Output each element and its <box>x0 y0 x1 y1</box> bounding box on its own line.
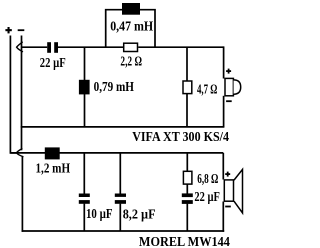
svg-text:22 µF: 22 µF <box>194 190 220 205</box>
svg-text:4,7 Ω: 4,7 Ω <box>197 82 217 97</box>
svg-text:6,8 Ω: 6,8 Ω <box>197 172 218 187</box>
svg-text:2,2 Ω: 2,2 Ω <box>120 54 142 69</box>
svg-text:10 µF: 10 µF <box>86 207 113 222</box>
svg-text:MOREL MW144: MOREL MW144 <box>139 235 230 248</box>
svg-text:22 µF: 22 µF <box>40 56 66 71</box>
svg-text:0,79 mH: 0,79 mH <box>94 80 134 95</box>
svg-text:VIFA XT 300 KS/4: VIFA XT 300 KS/4 <box>132 130 229 145</box>
svg-text:1,2 mH: 1,2 mH <box>36 161 71 176</box>
svg-text:0,47 mH: 0,47 mH <box>110 20 153 35</box>
svg-text:8,2 µF: 8,2 µF <box>123 207 156 222</box>
